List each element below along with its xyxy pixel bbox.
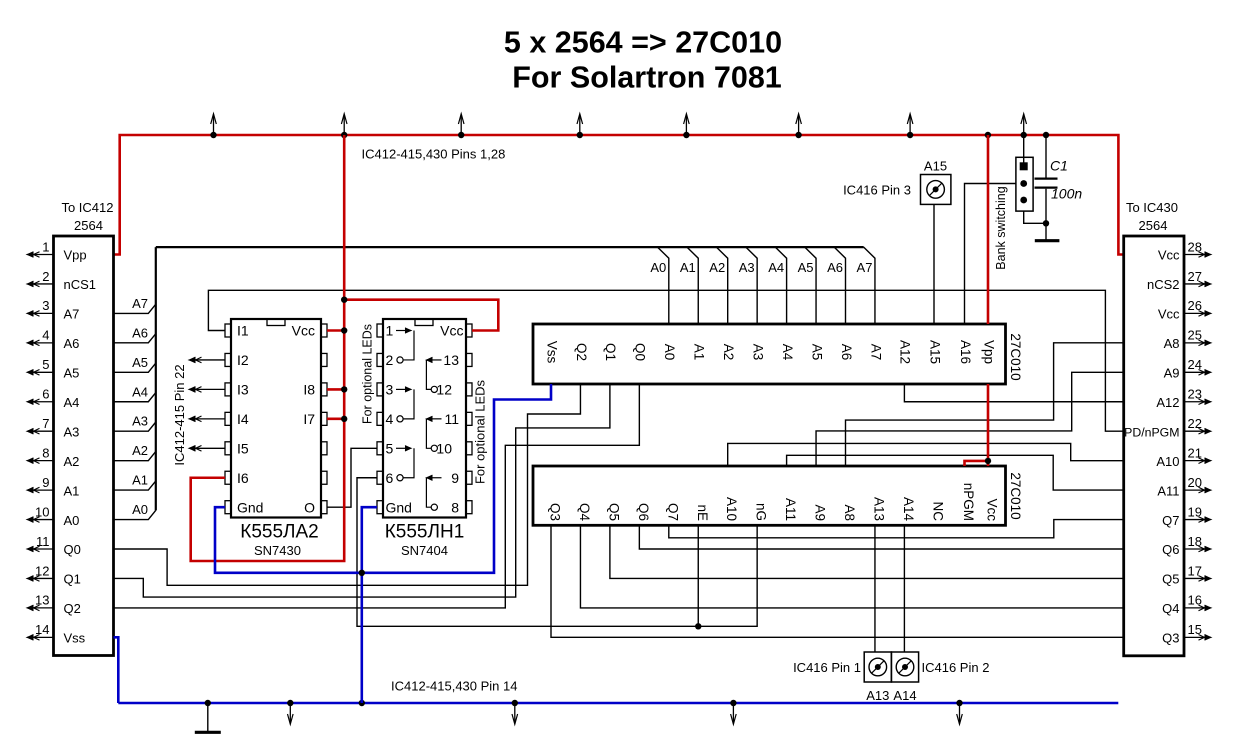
K555LA2 right pin box row 7 — [321, 501, 327, 514]
svg-text:A9: A9 — [1164, 366, 1180, 381]
junction dot C1/bank — [1043, 220, 1049, 226]
K555LA2 left pin box row 3 — [225, 383, 231, 396]
IC412 pin 7 arrow — [32, 430, 54, 432]
K555LA2 right pin box row 4 — [321, 412, 327, 425]
svg-text:Q4: Q4 — [1162, 601, 1179, 616]
svg-text:IC416 Pin 3: IC416 Pin 3 — [843, 183, 911, 198]
svg-text:Q1: Q1 — [603, 343, 618, 361]
svg-text:23: 23 — [1188, 387, 1202, 402]
K555LA2 chip outline — [231, 319, 321, 518]
wire A14 — [903, 525, 905, 652]
IC430 pin 19 arrow — [1184, 519, 1207, 521]
svg-text:5 x 2564 => 27C010: 5 x 2564 => 27C010 — [504, 26, 782, 60]
bus tap A3 (left) — [114, 422, 156, 431]
svg-text:13: 13 — [35, 593, 49, 608]
svg-text:20: 20 — [1188, 475, 1202, 490]
27C010 IC (top) outline — [533, 324, 1006, 384]
K555LA2 right pin box row 3 — [321, 383, 327, 396]
IC412 pin 2 arrow — [32, 283, 54, 285]
red junction dots — [341, 297, 347, 303]
svg-text:A6: A6 — [839, 344, 854, 361]
wire Vss IC412 to rail (blue) — [114, 637, 119, 703]
wire I7 stub (red) — [327, 418, 344, 421]
svg-text:A8: A8 — [1164, 336, 1180, 351]
svg-text:I8: I8 — [303, 382, 315, 398]
GND rail down-arrows — [289, 703, 291, 724]
K555LN1 inverter rows 2-3 symbol — [431, 359, 442, 361]
K555LN1 right pin box row 6 — [466, 471, 472, 484]
svg-text:A5: A5 — [809, 344, 824, 361]
svg-text:A6: A6 — [827, 260, 843, 275]
address bus vertical (left) — [155, 247, 157, 510]
IC412 pin 4 arrow — [32, 342, 54, 344]
K555LN1 chip outline — [383, 319, 466, 518]
IC416 Pin 2 jumper symbol — [896, 658, 914, 676]
K555LA2 left pin box row 6 — [225, 471, 231, 484]
IC412 pin 6 arrow — [32, 401, 54, 403]
input arrow to K555LA2 pin I2 — [194, 359, 226, 361]
input arrow to K555LA2 pin I3 — [194, 388, 226, 390]
wire Q2(IC412) to Q0(27C010) — [114, 384, 640, 608]
svg-text:11: 11 — [36, 534, 50, 549]
svg-text:10: 10 — [436, 441, 452, 457]
IC430 pin 20 arrow — [1184, 489, 1207, 491]
K555LA2 right pin box row 6 — [321, 471, 327, 484]
svg-text:IC416 Pin 1: IC416 Pin 1 — [793, 660, 861, 675]
wire Q0(IC412) to Q2(27C010) — [114, 384, 581, 585]
svg-text:A2: A2 — [132, 443, 148, 458]
svg-text:7: 7 — [42, 416, 49, 431]
svg-text:IC416 Pin 2: IC416 Pin 2 — [922, 660, 990, 675]
svg-text:A6: A6 — [132, 325, 148, 340]
svg-text:A16: A16 — [958, 340, 973, 364]
IC430 pin 24 arrow — [1184, 371, 1207, 373]
K555LN1 left pin box row 6 — [377, 471, 383, 484]
ground symbol (C1) — [1035, 239, 1060, 242]
input arrow to K555LA2 pin I4 — [194, 418, 226, 420]
svg-text:O: O — [304, 499, 315, 515]
svg-text:2: 2 — [386, 352, 394, 368]
K555LN1 left pin box row 3 — [377, 383, 383, 396]
svg-text:A4: A4 — [768, 260, 784, 275]
svg-text:A14: A14 — [901, 497, 916, 522]
svg-text:8: 8 — [451, 499, 459, 515]
svg-text:nPGM: nPGM — [961, 483, 976, 521]
wire A12 — [904, 384, 1123, 402]
bus tap A1 (left) — [114, 481, 156, 490]
bus tap A0 (left) — [114, 510, 156, 519]
svg-text:A10: A10 — [1156, 454, 1179, 469]
IC416 Pin 1 connector box — [864, 652, 891, 682]
svg-text:A8: A8 — [842, 504, 857, 521]
svg-text:Vcc: Vcc — [440, 323, 463, 339]
IC416 Pin 3 connector box — [921, 175, 951, 205]
K555LA2 right pin box row 2 — [321, 353, 327, 366]
wire Vcc loop to I6 (red) — [191, 135, 345, 561]
bus tap A5 (left) — [114, 363, 156, 372]
IC430 pin 27 arrow — [1184, 283, 1207, 285]
svg-text:IC412-415 Pin 22: IC412-415 Pin 22 — [172, 364, 187, 465]
capacitor C1 plates — [1035, 178, 1058, 180]
svg-text:Vpp: Vpp — [981, 340, 996, 364]
svg-text:A1: A1 — [132, 473, 148, 488]
wire A9 — [816, 372, 1124, 466]
wire pin6 to nE/nG — [357, 478, 757, 627]
IC412 pin 10 arrow — [32, 519, 54, 521]
svg-text:A0: A0 — [64, 513, 80, 528]
svg-text:9: 9 — [42, 475, 49, 490]
svg-text:A5: A5 — [798, 260, 814, 275]
wire nE — [697, 525, 699, 626]
IC430 pin 23 arrow — [1184, 401, 1207, 403]
svg-text:A7: A7 — [132, 296, 148, 311]
svg-text:A10: A10 — [724, 497, 739, 521]
svg-text:28: 28 — [1188, 239, 1202, 254]
IC412 pin 5 arrow — [32, 371, 54, 373]
bus tap A4 (top) — [775, 247, 786, 324]
bank switching pin 3 — [1020, 197, 1027, 204]
svg-text:A2: A2 — [721, 344, 736, 361]
wire Vcc to K555LN1 (red) — [344, 300, 498, 331]
svg-text:Q1: Q1 — [64, 572, 81, 587]
svg-text:nG: nG — [754, 503, 769, 521]
svg-text:PD/nPGM: PD/nPGM — [1124, 425, 1179, 439]
wire bank pin1 to rail — [1023, 135, 1025, 163]
svg-text:22: 22 — [1188, 416, 1202, 431]
wire Vss 27C010 to Gnd K555LA2 (blue) — [215, 384, 551, 573]
junction dot Vpp/Vcc — [985, 458, 991, 464]
svg-text:SN7430: SN7430 — [254, 543, 301, 558]
IC430 2564 chip outline — [1124, 236, 1184, 656]
ground symbol — [207, 703, 209, 731]
svg-text:26: 26 — [1188, 298, 1202, 313]
svg-text:A11: A11 — [1157, 483, 1179, 498]
K555LA2 left pin box row 7 — [225, 501, 231, 514]
K555LA2 left pin box row 4 — [225, 412, 231, 425]
svg-text:19: 19 — [1188, 504, 1202, 519]
wire Q4 — [580, 525, 1123, 608]
svg-text:Vcc: Vcc — [292, 323, 315, 339]
svg-text:Q3: Q3 — [548, 503, 563, 521]
svg-text:12: 12 — [436, 382, 452, 398]
svg-text:11: 11 — [444, 411, 459, 427]
IC412 pin 1 arrow — [32, 254, 54, 256]
IC416 Pin 3 jumper symbol — [927, 181, 945, 199]
Vcc rail junction dots — [210, 132, 216, 138]
wire A15 — [933, 204, 935, 324]
K555LN1 left pin box row 5 — [377, 442, 383, 455]
bank switching connector outline — [1016, 157, 1033, 211]
IC416 Pin 2 connector box — [891, 652, 918, 682]
svg-text:Q2: Q2 — [574, 343, 589, 361]
wire Vcc rail (red) — [114, 135, 1124, 255]
svg-text:27: 27 — [1188, 269, 1202, 284]
svg-text:Q0: Q0 — [633, 343, 648, 361]
IC430 pin 28 arrow — [1184, 254, 1207, 256]
bus tap A4 (left) — [114, 393, 156, 402]
svg-text:A1: A1 — [692, 344, 707, 361]
svg-text:A0: A0 — [132, 502, 148, 517]
svg-text:Q5: Q5 — [606, 503, 621, 521]
svg-text:Vcc: Vcc — [1158, 307, 1180, 322]
IC412 pin 13 arrow — [32, 607, 54, 609]
wire Q7 — [669, 520, 1124, 538]
K555LN1 inverter rows 6-7 symbol — [431, 477, 442, 479]
svg-text:1: 1 — [42, 239, 49, 254]
svg-text:A4: A4 — [132, 384, 148, 399]
K555LN1 right pin box row 4 — [466, 412, 472, 425]
K555LN1 left pin box row 4 — [377, 412, 383, 425]
svg-text:Q6: Q6 — [636, 503, 651, 521]
svg-text:A3: A3 — [64, 424, 80, 439]
K555LN1 left pin box row 2 — [377, 353, 383, 366]
svg-text:A11: A11 — [783, 498, 798, 521]
svg-text:I1: I1 — [237, 323, 249, 339]
wire I1 to PD/nPGM — [208, 290, 1123, 431]
svg-text:18: 18 — [1188, 534, 1202, 549]
IC412 pin 9 arrow — [32, 489, 54, 491]
K555LA2 notch — [267, 319, 285, 326]
svg-text:16: 16 — [1188, 593, 1202, 608]
bus tap A6 (top) — [834, 247, 845, 324]
svg-text:5: 5 — [42, 357, 49, 372]
svg-text:10: 10 — [35, 504, 49, 519]
svg-text:For Solartron 7081: For Solartron 7081 — [512, 61, 782, 95]
svg-text:Vss: Vss — [544, 341, 559, 364]
svg-text:Q6: Q6 — [1162, 542, 1179, 557]
svg-text:Gnd: Gnd — [237, 499, 263, 515]
svg-text:C1: C1 — [1050, 158, 1068, 174]
Vcc rail up-arrows — [213, 115, 215, 136]
svg-text:К555ЛА2: К555ЛА2 — [240, 522, 318, 543]
svg-text:A9: A9 — [813, 504, 828, 521]
IC430 pin 16 arrow — [1184, 607, 1207, 609]
K555LN1 inverter 1-2 symbol — [396, 330, 407, 332]
K555LN1 right pin box row 7 — [466, 501, 472, 514]
svg-text:A7: A7 — [857, 260, 873, 275]
svg-text:I2: I2 — [237, 352, 249, 368]
wire A13 — [874, 525, 876, 652]
K555LN1 inverter rows 4-5 symbol — [431, 418, 442, 420]
junction dot blue — [359, 570, 365, 576]
svg-text:A14: A14 — [893, 688, 916, 703]
svg-text:14: 14 — [35, 622, 49, 637]
svg-text:Q7: Q7 — [665, 503, 680, 521]
IC430 pin 26 arrow — [1184, 312, 1207, 314]
svg-text:A6: A6 — [64, 336, 80, 351]
svg-text:Q3: Q3 — [1162, 631, 1179, 646]
27C010 IC (bottom) outline — [533, 466, 1006, 525]
bank switching pin 2 — [1020, 180, 1027, 187]
svg-text:For optional LEDs: For optional LEDs — [473, 379, 488, 484]
svg-text:6: 6 — [42, 387, 49, 402]
bus tap A0 (top) — [658, 247, 669, 324]
K555LA2 left pin box row 5 — [225, 442, 231, 455]
IC430 pin 15 arrow — [1184, 636, 1207, 638]
svg-text:17: 17 — [1188, 563, 1202, 578]
svg-text:A2: A2 — [64, 454, 80, 469]
wire Vpp (red) — [987, 135, 990, 324]
wire I8 stub (red) — [327, 388, 344, 391]
svg-text:A4: A4 — [780, 344, 795, 361]
svg-text:A12: A12 — [1156, 395, 1179, 410]
IC430 pin 21 arrow — [1184, 460, 1207, 462]
svg-text:24: 24 — [1188, 357, 1202, 372]
svg-text:A0: A0 — [650, 260, 666, 275]
svg-text:Bank switching: Bank switching — [994, 186, 1008, 269]
IC412 pin 11 arrow — [32, 548, 54, 550]
svg-text:A13: A13 — [871, 497, 886, 521]
svg-text:I4: I4 — [237, 411, 249, 427]
IC412 pin 3 arrow — [32, 312, 54, 314]
K555LN1 notch — [415, 319, 433, 326]
wire bank pin3 to C1 bottom — [1024, 211, 1046, 223]
K555LN1 inverter 3-4 symbol — [396, 388, 407, 390]
svg-text:12: 12 — [35, 563, 49, 578]
svg-text:A5: A5 — [64, 366, 80, 381]
svg-text:A1: A1 — [680, 260, 696, 275]
IC412 pin 12 arrow — [32, 577, 54, 579]
svg-text:2: 2 — [42, 269, 49, 284]
address bus top horizontal — [156, 246, 864, 248]
wire Vcc stub K555LA2 (red) — [327, 329, 344, 332]
svg-text:To IC412: To IC412 — [61, 200, 113, 215]
svg-text:4: 4 — [42, 328, 49, 343]
svg-text:15: 15 — [1188, 622, 1202, 637]
IC412 pin 8 arrow — [32, 460, 54, 462]
svg-text:Vcc: Vcc — [1158, 248, 1180, 263]
IC430 pin 22 arrow — [1184, 430, 1207, 432]
svg-text:A3: A3 — [132, 414, 148, 429]
svg-text:Gnd: Gnd — [386, 499, 412, 515]
wire Vpp to Vcc/nPGM (red) — [965, 384, 989, 466]
svg-text:2564: 2564 — [1139, 218, 1168, 233]
bank switching pin 1 (square) — [1020, 163, 1027, 170]
svg-text:1: 1 — [386, 323, 394, 339]
IC412 pin 14 arrow — [32, 636, 54, 638]
wire A10 — [728, 443, 1124, 466]
K555LN1 left pin box row 1 — [377, 324, 383, 337]
svg-text:NC: NC — [931, 502, 946, 522]
IC430 pin 17 arrow — [1184, 577, 1207, 579]
svg-text:3: 3 — [42, 298, 49, 313]
K555LN1 right pin box row 1 — [466, 324, 472, 337]
svg-text:9: 9 — [451, 470, 459, 486]
svg-text:nCS1: nCS1 — [64, 277, 97, 292]
svg-text:2564: 2564 — [74, 218, 103, 233]
K555LA2 right pin box row 1 — [321, 324, 327, 337]
wire Q3 — [551, 525, 1124, 637]
svg-text:A7: A7 — [868, 344, 883, 361]
svg-text:A15: A15 — [927, 340, 942, 364]
K555LA2 left pin box row 2 — [225, 353, 231, 366]
svg-text:Q4: Q4 — [577, 503, 592, 522]
svg-text:К555ЛН1: К555ЛН1 — [385, 522, 465, 543]
svg-text:I7: I7 — [303, 411, 315, 427]
wire A16 — [965, 184, 1017, 325]
K555LN1 right pin box row 5 — [466, 442, 472, 455]
svg-text:Vss: Vss — [64, 631, 86, 646]
svg-text:A7: A7 — [64, 307, 80, 322]
svg-text:8: 8 — [42, 445, 49, 460]
svg-text:27C010: 27C010 — [1008, 333, 1023, 380]
svg-text:5: 5 — [386, 441, 394, 457]
svg-text:nE: nE — [695, 504, 710, 521]
wire Q5 — [610, 525, 1124, 578]
svg-text:Vcc: Vcc — [985, 498, 1000, 521]
K555LN1 right pin box row 3 — [466, 383, 472, 396]
svg-text:Q7: Q7 — [1162, 513, 1179, 528]
bus tap A1 (top) — [687, 247, 698, 324]
wire A8 — [846, 343, 1124, 466]
svg-text:13: 13 — [443, 352, 459, 368]
svg-text:A2: A2 — [709, 260, 725, 275]
svg-text:100n: 100n — [1051, 186, 1082, 202]
svg-text:IC412-415,430 Pin 14: IC412-415,430 Pin 14 — [391, 679, 517, 694]
input arrow to K555LA2 pin I5 — [194, 447, 226, 449]
svg-text:4: 4 — [386, 411, 394, 427]
bus tap A3 (top) — [746, 247, 757, 324]
wire Q1(IC412) to Q1(27C010) — [114, 384, 610, 597]
svg-text:A3: A3 — [750, 344, 765, 361]
svg-text:A3: A3 — [739, 260, 755, 275]
junction dot nE/nG — [695, 623, 701, 629]
svg-text:A13: A13 — [866, 688, 889, 703]
svg-text:A15: A15 — [924, 159, 947, 174]
K555LN1 right pin box row 2 — [466, 353, 472, 366]
IC412 2564 chip outline — [54, 236, 114, 656]
svg-text:I6: I6 — [237, 470, 249, 486]
bus tap A2 (left) — [114, 451, 156, 460]
svg-text:21: 21 — [1188, 445, 1202, 460]
svg-text:nCS2: nCS2 — [1147, 277, 1180, 292]
svg-text:Vpp: Vpp — [64, 248, 87, 263]
wire Q6 — [639, 525, 1123, 549]
GND rail junction dots — [205, 700, 211, 706]
svg-text:Q5: Q5 — [1162, 572, 1179, 587]
svg-text:I3: I3 — [237, 382, 249, 398]
svg-text:27C010: 27C010 — [1008, 472, 1023, 519]
svg-text:To IC430: To IC430 — [1126, 200, 1178, 215]
capacitor C1 top lead — [1045, 135, 1047, 178]
svg-text:25: 25 — [1188, 328, 1202, 343]
svg-text:SN7404: SN7404 — [401, 543, 448, 558]
bus tap A7 (left) — [114, 304, 156, 313]
svg-text:For optional LEDs: For optional LEDs — [361, 324, 375, 424]
svg-text:A1: A1 — [64, 483, 80, 498]
svg-text:I5: I5 — [237, 441, 249, 457]
K555LA2 left pin box row 1 — [225, 324, 231, 337]
svg-text:IC412-415,430 Pins 1,28: IC412-415,430 Pins 1,28 — [362, 147, 506, 162]
bus tap A5 (top) — [805, 247, 816, 324]
svg-text:6: 6 — [386, 470, 394, 486]
wire GND rail (blue) — [118, 702, 1118, 705]
svg-text:Q0: Q0 — [64, 542, 81, 557]
svg-text:A0: A0 — [662, 344, 677, 361]
bus tap A2 (top) — [716, 247, 727, 324]
svg-text:A12: A12 — [898, 340, 913, 364]
svg-text:Q2: Q2 — [64, 601, 81, 616]
svg-text:A5: A5 — [132, 355, 148, 370]
IC430 pin 25 arrow — [1184, 342, 1207, 344]
K555LA2 right pin box row 5 — [321, 442, 327, 455]
bus tap A6 (left) — [114, 334, 156, 343]
svg-text:3: 3 — [386, 382, 394, 398]
IC430 pin 18 arrow — [1184, 548, 1207, 550]
IC416 Pin 1 jumper symbol — [869, 658, 887, 676]
K555LN1 inverter 5-6 symbol — [396, 447, 407, 449]
wire Gnd K555LN1 to rail (blue) — [362, 507, 377, 703]
